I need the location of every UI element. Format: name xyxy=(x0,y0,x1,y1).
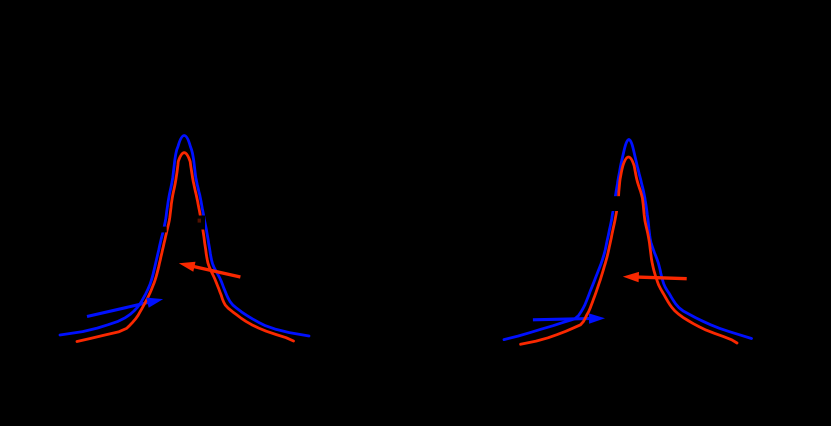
panel b: dashed-line gap on left flank xyxy=(609,196,622,211)
panel b: blue arrow head (shift right) xyxy=(589,313,605,323)
panel a: red arrow (shift left) xyxy=(193,266,240,277)
panel b: blue arrow tail line xyxy=(533,319,591,320)
panel a: dark red residue in right gap xyxy=(198,219,201,223)
panel a: dashed-line gap on right flank xyxy=(196,216,206,230)
panel a: blue arrow tail line xyxy=(87,302,149,316)
panel a: blue resonance curve xyxy=(60,136,309,337)
panel a: blue arrow head (shift right) xyxy=(146,298,163,308)
panel b: red arrow (shift left) xyxy=(637,277,686,279)
panel a: dashed-line gap on left flank xyxy=(160,227,167,233)
panel a: red resonance curve xyxy=(77,153,294,342)
panel b: red resonance curve xyxy=(521,157,737,344)
panel b: blue resonance curve xyxy=(504,140,752,340)
